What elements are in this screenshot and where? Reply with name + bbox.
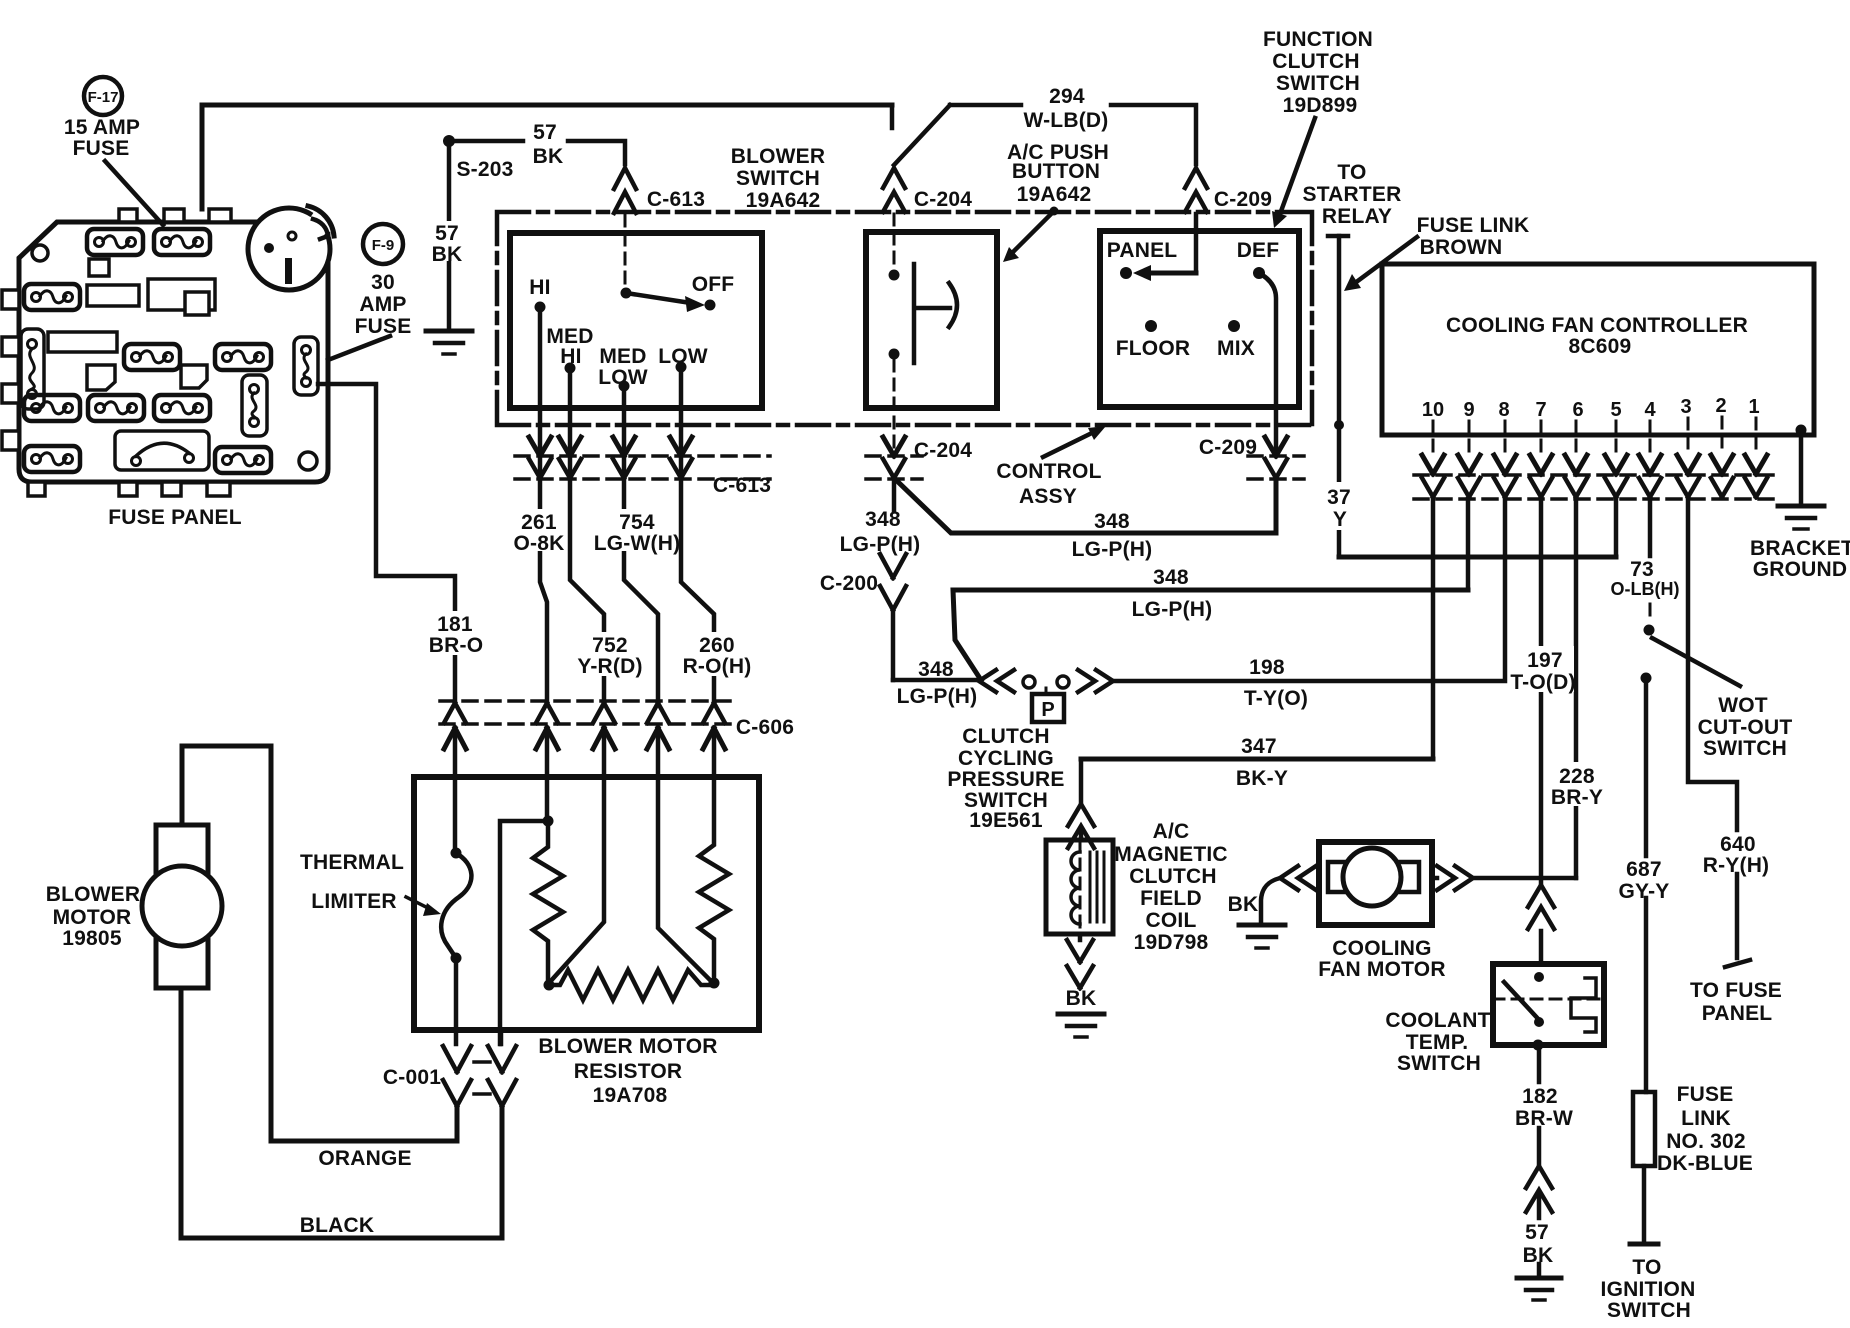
svg-text:752: 752 [592,634,628,657]
svg-text:W-LB(D): W-LB(D) [1024,109,1109,132]
leader control assy [1043,430,1098,457]
wire 228 BR-Y fan motor to pin 6 [1432,866,1576,890]
svg-text:THERMAL: THERMAL [300,851,404,874]
svg-text:19805: 19805 [62,927,122,950]
WOT cut-out switch [1649,604,1652,620]
svg-text:MED: MED [599,345,646,368]
svg-text:BR-Y: BR-Y [1551,786,1603,809]
wire 197 T-O(D) pin 7 to coolant switch [1539,499,1544,885]
svg-text:687: 687 [1626,858,1662,881]
leader function clutch switch [1280,118,1315,214]
wire C-209 into switch [1194,214,1199,273]
svg-text:C-209: C-209 [1214,188,1272,211]
svg-text:347: 347 [1241,735,1277,758]
leader to 30 amp fuse [328,336,390,360]
svg-text:T-Y(O): T-Y(O) [1244,687,1308,710]
svg-text:SWITCH: SWITCH [736,167,820,190]
wire 57 BK vertical to ground [447,141,452,330]
splice S-203 [443,135,455,147]
svg-text:3: 3 [1680,396,1691,418]
svg-text:BROWN: BROWN [1420,236,1503,259]
svg-text:5: 5 [1610,399,1621,421]
svg-text:FUSE PANEL: FUSE PANEL [108,506,241,529]
node MIX [1228,320,1240,332]
svg-text:BK: BK [1228,893,1259,916]
svg-text:C-001: C-001 [383,1066,441,1089]
fuse row 5 [24,446,80,472]
svg-text:57: 57 [533,121,557,144]
svg-text:MOTOR: MOTOR [53,906,132,929]
svg-text:FUNCTION: FUNCTION [1263,28,1373,51]
svg-text:197: 197 [1527,649,1563,672]
label 752 Y-R(D) [579,632,641,676]
fuse panel outline [19,222,328,482]
svg-text:LG-P(H): LG-P(H) [897,685,978,708]
svg-text:754: 754 [619,511,655,534]
wire 198 T-Y(O) to pin 8 [1113,499,1505,681]
svg-text:A/C: A/C [1153,820,1190,843]
connector C-606 rows [440,701,730,724]
clutch cycling pressure switch contacts [979,670,1014,692]
ground coil BK [1058,1012,1104,1017]
svg-text:LINK: LINK [1681,1107,1731,1130]
svg-text:NO. 302: NO. 302 [1666,1130,1746,1153]
fuse panel top tabs [119,209,137,222]
wire MED HI to connector [570,368,604,703]
wire orange [182,746,457,1141]
wire LOW to connector [681,367,714,703]
blower switch 19A642 box [510,233,762,408]
node OFF [705,300,716,311]
svg-text:181: 181 [437,613,473,636]
svg-text:Y-R(D): Y-R(D) [577,655,642,678]
svg-text:BK: BK [432,243,463,266]
svg-text:OFF: OFF [692,273,735,296]
fuse F-17 callout circle [84,77,122,115]
svg-text:COIL: COIL [1146,909,1197,932]
svg-text:PRESSURE: PRESSURE [947,768,1064,791]
wire 687 GY-Y to fuse link [1644,684,1649,1092]
svg-text:TEMP.: TEMP. [1406,1031,1468,1054]
node controller case ground [1796,425,1807,436]
function clutch switch 19D899 box [1100,231,1299,407]
svg-text:C-613: C-613 [713,474,771,497]
svg-text:RESISTOR: RESISTOR [574,1060,683,1083]
svg-text:294: 294 [1049,85,1085,108]
svg-text:BR-O: BR-O [429,634,483,657]
svg-text:BLOWER: BLOWER [46,883,141,906]
svg-text:S-203: S-203 [456,158,513,181]
svg-text:ASSY: ASSY [1019,485,1077,508]
wire 181 BR-O from 30A fuse [318,384,455,702]
svg-text:ORANGE: ORANGE [318,1147,411,1170]
wire 294 W-LB(D) [894,105,950,165]
push button actuator symbol [914,264,950,363]
svg-text:SWITCH: SWITCH [1607,1299,1691,1322]
wire HI to connector [540,307,547,703]
svg-text:DK-BLUE: DK-BLUE [1657,1152,1753,1175]
wire 347 down to clutch coil [1079,759,1084,804]
svg-text:GY-Y: GY-Y [1619,880,1670,903]
svg-text:BK-Y: BK-Y [1236,767,1288,790]
svg-text:261: 261 [521,511,557,534]
svg-text:LIMITER: LIMITER [311,890,396,913]
svg-text:19A642: 19A642 [746,189,821,212]
wire DEF to C-209 bottom [1259,273,1276,452]
svg-text:7: 7 [1535,399,1546,421]
wire fuse panel feed to top rail [202,105,892,209]
blower switch wiper [621,288,632,299]
svg-text:COOLING: COOLING [1332,937,1431,960]
svg-text:FUSE: FUSE [355,315,412,338]
svg-text:AMP: AMP [359,293,406,316]
svg-text:57: 57 [1525,1221,1549,1244]
svg-text:C-613: C-613 [647,188,705,211]
blower motor 19805 [156,825,208,988]
wire black [181,988,502,1238]
fuse row 4 [24,395,80,421]
svg-text:BK: BK [533,145,564,168]
connector C-606 chevrons [444,703,466,723]
svg-text:TO: TO [1337,161,1366,184]
svg-text:348: 348 [1153,566,1189,589]
ignition switch bezel circle [248,208,330,290]
connector C-613 bottom rows [515,456,770,479]
svg-text:19D899: 19D899 [1283,94,1358,117]
svg-text:198: 198 [1249,656,1285,679]
svg-text:9: 9 [1463,399,1474,421]
svg-text:228: 228 [1559,765,1595,788]
fuse panel bottom tabs [28,482,45,496]
svg-text:COOLANT: COOLANT [1385,1009,1490,1032]
svg-text:F-9: F-9 [372,237,395,254]
svg-text:LG-P(H): LG-P(H) [1072,538,1153,561]
connector C-613 top [614,168,636,213]
svg-text:260: 260 [699,634,735,657]
svg-text:BLACK: BLACK [300,1214,375,1237]
node FLOOR [1145,320,1157,332]
svg-text:SWITCH: SWITCH [1397,1052,1481,1075]
svg-text:O-8K: O-8K [514,532,565,555]
svg-text:R-Y(H): R-Y(H) [1703,854,1770,877]
svg-text:CLUTCH: CLUTCH [1272,50,1360,73]
svg-text:CONTROL: CONTROL [996,460,1101,483]
thermal limiter [453,728,458,853]
leader A/C push button [1050,207,1059,216]
svg-text:FUSE: FUSE [73,137,130,160]
svg-text:19A708: 19A708 [593,1084,668,1107]
svg-text:GROUND: GROUND [1753,558,1848,581]
svg-text:PANEL: PANEL [1702,1002,1773,1025]
svg-text:640: 640 [1720,833,1756,856]
fuse row 2 [24,284,80,310]
panel corner circle [299,452,317,470]
controller connector chevrons [1422,455,1444,474]
svg-text:BK: BK [1066,987,1097,1010]
svg-text:LG-W(H): LG-W(H) [594,532,681,555]
svg-text:FAN MOTOR: FAN MOTOR [1318,958,1445,981]
svg-text:C-204: C-204 [914,439,972,462]
wire 348 LG-P(H) to pressure switch [893,678,978,683]
svg-text:STARTER: STARTER [1302,183,1401,206]
connector C-209 top [1185,168,1207,212]
fuse link no. 302 dk-blue [1633,1092,1655,1166]
A/C magnetic clutch field coil 19D798 [1046,840,1113,934]
wire dashed out of A/C switch [893,360,896,452]
label 260 R-O(H) [685,632,749,676]
svg-text:CLUTCH: CLUTCH [1129,865,1217,888]
resistor element left [533,821,563,983]
svg-text:TO FUSE: TO FUSE [1690,979,1782,1002]
leader fuse link brown [1355,237,1417,283]
svg-text:IGNITION: IGNITION [1601,1278,1696,1301]
svg-text:30: 30 [371,271,395,294]
wire 348 LG-P(H) to pin 9 [953,590,1468,680]
svg-text:FUSE: FUSE [1677,1083,1734,1106]
svg-text:DEF: DEF [1237,239,1280,262]
bracket ground [1778,504,1824,509]
svg-text:182: 182 [1522,1085,1558,1108]
wire 73 O-LB(H) pin 4 [1648,499,1653,556]
svg-text:15 AMP: 15 AMP [64,116,140,139]
fuse panel left tabs [2,290,19,309]
svg-text:FUSE LINK: FUSE LINK [1417,214,1530,237]
coolant temp switch [1493,964,1604,1045]
svg-text:RELAY: RELAY [1322,205,1392,228]
svg-text:73: 73 [1630,558,1654,581]
svg-text:C-200: C-200 [820,572,878,595]
resistor element bottom [549,970,714,1000]
svg-text:PANEL: PANEL [1107,239,1178,262]
svg-text:TO: TO [1632,1256,1661,1279]
wire 57 BK horizontal [449,139,523,144]
node A/C lower contact [889,349,900,360]
svg-text:SWITCH: SWITCH [1276,72,1360,95]
svg-text:BLOWER MOTOR: BLOWER MOTOR [538,1035,717,1058]
svg-text:1: 1 [1748,396,1759,418]
svg-text:COOLING FAN CONTROLLER: COOLING FAN CONTROLLER [1446,314,1748,337]
svg-text:O-LB(H): O-LB(H) [1611,579,1680,599]
svg-text:LG-P(H): LG-P(H) [1132,598,1213,621]
svg-text:MAGNETIC: MAGNETIC [1114,843,1228,866]
svg-text:C-606: C-606 [736,716,794,739]
label 261 O-BK [512,509,566,551]
pin stubs dashed [1433,417,1756,452]
svg-text:WOT: WOT [1718,694,1768,717]
pressure switch P capsule [1045,688,1048,694]
fuse F-9 callout circle [363,224,403,264]
svg-text:R-O(H): R-O(H) [683,655,752,678]
svg-text:CYCLING: CYCLING [958,747,1054,770]
node A/C upper contact [889,270,900,281]
cooling fan motor [1319,842,1432,925]
svg-text:BLOWER: BLOWER [731,145,826,168]
label 754 LG-W(H) [606,509,668,551]
wire MED LOW to connector [624,386,658,703]
svg-text:8C609: 8C609 [1569,335,1632,358]
fuse panel mounting hole [32,245,48,261]
leader to 15 amp fuse [105,161,163,225]
fuse row 1 [87,229,143,255]
control assy dash-dot box [497,212,1312,425]
svg-text:HI: HI [529,276,550,299]
svg-text:4: 4 [1644,399,1656,421]
svg-text:CUT-OUT: CUT-OUT [1698,716,1793,739]
svg-text:F-17: F-17 [88,89,119,106]
svg-text:19A642: 19A642 [1017,183,1092,206]
svg-text:2: 2 [1715,395,1726,417]
wire 752 branch into resistor [549,728,604,983]
svg-text:8: 8 [1498,399,1509,421]
controller connector rows [1414,475,1775,499]
svg-text:C-204: C-204 [914,188,972,211]
wire 182 BR-W to ground [1537,1045,1542,1166]
svg-text:37: 37 [1327,486,1351,509]
svg-text:BRACKET: BRACKET [1750,537,1850,560]
svg-text:FLOOR: FLOOR [1116,337,1191,360]
wire dashed feed into blower switch [624,215,627,288]
svg-text:C-209: C-209 [1199,436,1257,459]
wire coil to ground BK [1067,934,1093,988]
connector C-209 bottom [1248,456,1304,479]
wire dashed into A/C switch [893,214,896,268]
ground fan motor BK [1239,923,1285,928]
svg-text:348: 348 [918,658,954,681]
svg-text:Y: Y [1333,508,1347,531]
svg-text:BUTTON: BUTTON [1012,160,1100,183]
wire 348 LG-P(H) C-204 to C-209 [894,478,1276,533]
svg-text:BR-W: BR-W [1515,1107,1573,1130]
wire 348 LG-P(H) down from C-204 [892,478,897,510]
svg-text:6: 6 [1572,399,1583,421]
connector C-204 top [883,168,905,212]
svg-text:348: 348 [1094,510,1130,533]
connector C-204 bottom [866,456,922,479]
ground S-203 [426,329,472,334]
A/C push button 19A642 box [866,232,997,408]
wire 37 Y starter relay to pin 5 [1337,236,1342,557]
svg-text:FIELD: FIELD [1140,887,1202,910]
ground 57 BK [1517,1276,1561,1281]
30 amp fuse cartridge [294,337,318,395]
svg-text:57: 57 [435,222,459,245]
svg-text:10: 10 [1422,399,1444,421]
svg-text:MIX: MIX [1217,337,1255,360]
svg-text:T-O(D): T-O(D) [1510,671,1575,694]
svg-text:19E561: 19E561 [969,809,1043,832]
svg-text:348: 348 [865,508,901,531]
small keeper tags [87,365,115,390]
wire 260 branch into resistor [658,728,712,982]
wire 347 BK-Y to pin 10 [1081,757,1433,762]
connector C-613 chevrons [529,437,551,456]
resistor element right [699,728,729,983]
svg-text:SWITCH: SWITCH [1703,737,1787,760]
blower motor resistor 19A706 box [414,777,759,1030]
svg-text:19D798: 19D798 [1134,931,1209,954]
cooling fan controller 8C609 box [1382,264,1814,435]
svg-text:CLUTCH: CLUTCH [962,725,1050,748]
resistor branch tap [500,728,548,1044]
wire 640 R-Y(H) pin 3 to fuse panel [1688,499,1737,958]
wire stub at top rail corner [890,105,895,128]
wire fan motor left to ground [1280,866,1316,890]
fuse row 3 [21,329,44,409]
svg-text:P: P [1041,699,1054,721]
